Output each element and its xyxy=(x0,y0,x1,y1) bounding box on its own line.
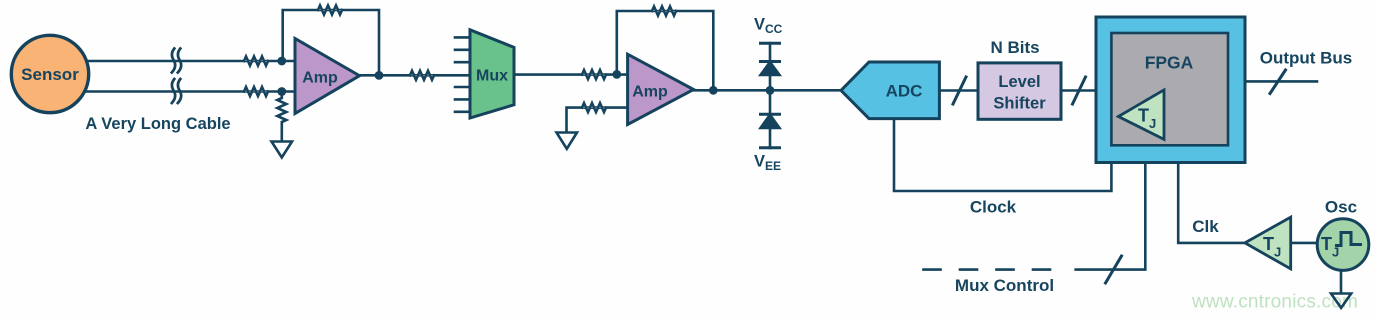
FPGA outer box xyxy=(1096,17,1245,163)
wire level shifter to FPGA xyxy=(1061,89,1096,92)
svg-text:Osc: Osc xyxy=(1325,198,1357,217)
bus slash output bus xyxy=(1270,70,1286,94)
wire TJ buffer to osc xyxy=(1291,242,1318,245)
svg-text:Clk: Clk xyxy=(1192,217,1219,236)
resistor on top input wire xyxy=(244,57,268,66)
wire FPGA output bus xyxy=(1245,80,1317,83)
resistor to ground below amp1 lower input xyxy=(277,92,286,142)
mux control vertical wire xyxy=(1076,163,1146,270)
wire amp1 output to mux xyxy=(359,74,470,77)
node amp2 output xyxy=(709,86,718,95)
cable break squiggle bottom wire xyxy=(172,79,181,103)
mux control dashed wire xyxy=(924,268,1065,271)
svg-text:A Very Long Cable: A Very Long Cable xyxy=(85,115,230,133)
bus slash mux control xyxy=(1106,256,1122,283)
diode D2 to Vee xyxy=(761,113,780,116)
Vee terminal bar xyxy=(761,146,780,149)
resistor feedback amp2 xyxy=(652,7,676,16)
node amp2 input xyxy=(612,70,621,79)
clock wire ADC to FPGA xyxy=(894,119,1111,191)
wire sensor bottom to amp1 xyxy=(60,90,294,93)
FPGA inner box xyxy=(1111,33,1228,145)
node diode clamp xyxy=(766,86,775,95)
node top input amp1 xyxy=(277,57,286,66)
feedback loop amp2 xyxy=(617,11,714,90)
feedback loop amp1 xyxy=(283,10,379,76)
wire amp2 lower input from ground xyxy=(567,108,629,132)
bus slash ADC out xyxy=(953,77,966,104)
node amp1 output xyxy=(375,71,384,80)
wire ADC to level shifter xyxy=(939,89,978,92)
ground symbol amp2 xyxy=(557,133,578,149)
svg-text:ADC: ADC xyxy=(886,82,923,101)
svg-text:Level: Level xyxy=(998,73,1040,91)
TJ clock buffer triangle xyxy=(1245,217,1291,269)
ground symbol osc xyxy=(1331,294,1351,308)
svg-text:Clock: Clock xyxy=(970,198,1017,217)
svg-text:N Bits: N Bits xyxy=(990,38,1039,57)
mux xyxy=(470,30,514,118)
wire mux output to amp2 xyxy=(514,73,628,76)
mux input stubs xyxy=(455,37,470,111)
wire amp2 output to ADC xyxy=(692,89,842,92)
svg-text:Mux: Mux xyxy=(476,68,508,85)
resistor on bottom input wire xyxy=(244,87,268,96)
ADC xyxy=(841,62,939,119)
resistor R feedback amp1 xyxy=(318,6,342,15)
svg-text:FPGA: FPGA xyxy=(1145,53,1194,73)
resistor between amp1 and mux xyxy=(410,71,434,80)
clk wire FPGA to TJ buffer xyxy=(1178,163,1245,243)
svg-text:Amp: Amp xyxy=(302,70,338,87)
diode D1 to Vcc xyxy=(761,60,780,63)
oscillator circle xyxy=(1317,219,1369,271)
svg-text:Output Bus: Output Bus xyxy=(1260,49,1353,68)
op-amp U1 Amp xyxy=(295,39,360,114)
TJ triangle inside FPGA xyxy=(1118,90,1164,139)
diode clamp vertical wire xyxy=(769,43,772,148)
ground symbol amp1 xyxy=(272,142,293,158)
wire sensor top to amp1 xyxy=(60,60,294,63)
resistor mux to amp2 xyxy=(582,70,606,79)
svg-text:Mux Control: Mux Control xyxy=(955,276,1054,295)
sensor circle xyxy=(11,35,88,112)
cable break squiggle top wire xyxy=(172,49,181,73)
svg-text:VEE: VEE xyxy=(754,153,781,174)
wire osc to ground xyxy=(1340,271,1343,294)
svg-text:Sensor: Sensor xyxy=(21,65,79,84)
svg-text:Amp: Amp xyxy=(632,84,668,101)
level shifter box xyxy=(978,63,1061,119)
Vcc terminal bar xyxy=(761,42,780,45)
svg-text:Shifter: Shifter xyxy=(993,95,1046,113)
node bottom input amp1 xyxy=(277,87,286,96)
resistor amp2 lower input xyxy=(582,103,606,112)
svg-text:VCC: VCC xyxy=(754,16,783,37)
op-amp U2 Amp xyxy=(628,54,694,124)
junction dots xyxy=(277,57,774,96)
bus slash level shifter out xyxy=(1073,77,1086,104)
pulse glyph in osc xyxy=(1335,233,1362,246)
